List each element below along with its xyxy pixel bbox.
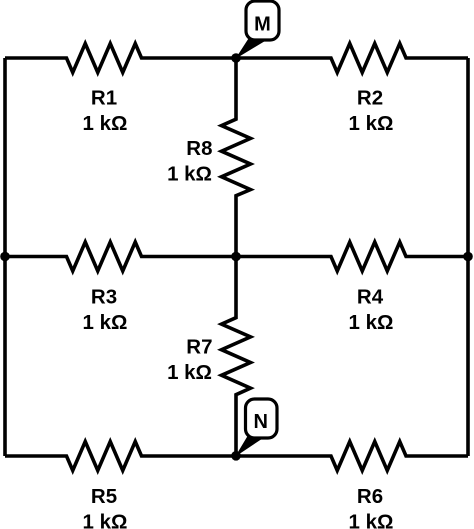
wire right vertical — [466, 58, 470, 456]
node M flag box — [246, 1, 279, 40]
wire center vertical with resistor R8 and resistor R7 — [222, 58, 251, 456]
svg-text:N: N — [253, 411, 267, 433]
svg-text:R1: R1 — [91, 86, 117, 109]
node dot bottom center (N) — [231, 451, 241, 461]
wire bottom rail with resistor R5 and resistor R6 — [5, 442, 468, 471]
svg-text:R7: R7 — [186, 336, 212, 359]
node dot left middle — [0, 252, 10, 262]
svg-text:1 kΩ: 1 kΩ — [349, 510, 394, 529]
wire left vertical — [3, 58, 7, 456]
node N flag tail — [237, 437, 261, 456]
node N flag box — [246, 399, 278, 438]
svg-text:R3: R3 — [91, 285, 117, 308]
wire top rail with resistor R1 and resistor R2 — [5, 44, 468, 73]
svg-text:R2: R2 — [357, 86, 383, 109]
svg-text:1 kΩ: 1 kΩ — [83, 510, 128, 529]
svg-text:1 kΩ: 1 kΩ — [349, 112, 394, 135]
svg-text:R8: R8 — [186, 137, 212, 160]
wire middle rail with resistor R3 and resistor R4 — [5, 242, 468, 271]
node dot center — [231, 252, 241, 262]
svg-text:1 kΩ: 1 kΩ — [349, 311, 394, 334]
svg-text:1 kΩ: 1 kΩ — [83, 112, 128, 135]
node dot right middle — [463, 252, 473, 262]
svg-text:R5: R5 — [91, 485, 117, 508]
node M flag tail — [237, 38, 264, 57]
svg-text:R6: R6 — [357, 485, 383, 508]
svg-text:M: M — [254, 14, 271, 36]
svg-text:1 kΩ: 1 kΩ — [83, 311, 128, 334]
svg-text:1 kΩ: 1 kΩ — [167, 163, 212, 186]
svg-text:1 kΩ: 1 kΩ — [167, 361, 212, 384]
node dot top center (M) — [231, 53, 241, 63]
svg-text:R4: R4 — [357, 285, 384, 308]
